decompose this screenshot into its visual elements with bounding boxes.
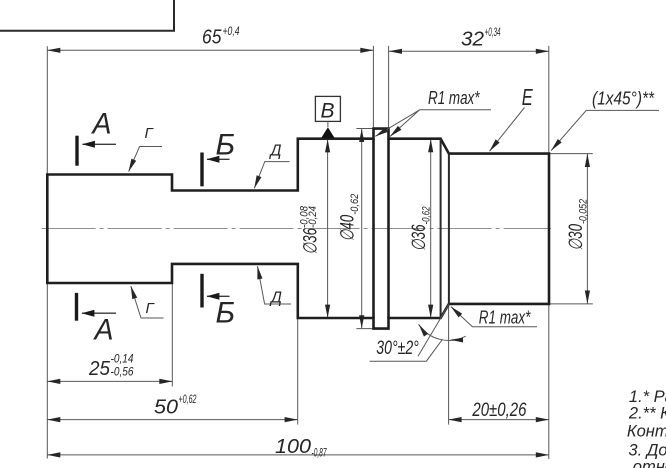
svg-text:20±0,26: 20±0,26 xyxy=(472,400,527,421)
svg-text:30°±2°: 30°±2° xyxy=(376,338,419,359)
leader R1 top arrow 1 xyxy=(375,110,419,137)
dim line 25 xyxy=(47,380,172,382)
svg-text:Г: Г xyxy=(145,125,155,142)
svg-text:R1 max*: R1 max* xyxy=(479,308,531,328)
extension line x=172.3 (25 dim) xyxy=(171,283,173,387)
svg-text:∅36-0,08-0,24: ∅36-0,08-0,24 xyxy=(299,205,322,254)
section mark B top arrow xyxy=(207,158,230,160)
edge line cone base d36 xyxy=(440,139,442,318)
flange right edge full xyxy=(387,139,390,318)
chamfer extension line (30deg) xyxy=(418,304,449,356)
dim line 50 xyxy=(47,419,297,421)
leader D bottom xyxy=(258,266,291,304)
centerline (part axis) xyxy=(42,228,551,230)
extension line x=448.6 (20 dim / angle vertex) xyxy=(448,304,450,425)
svg-text:∅40-0,62: ∅40-0,62 xyxy=(338,194,361,242)
svg-text:-0,14: -0,14 xyxy=(111,353,134,365)
leader R1 top arrow 2 xyxy=(390,110,420,137)
dim line dia40 xyxy=(361,129,363,328)
svg-text:(1x45°)**: (1x45°)** xyxy=(592,89,655,109)
dim line 32 xyxy=(389,50,549,52)
leader E xyxy=(490,108,525,152)
extension line x=297.7 (50 dim) xyxy=(297,318,299,425)
svg-text:+0,4: +0,4 xyxy=(223,26,240,38)
svg-text:65: 65 xyxy=(202,26,222,48)
flange left edge full xyxy=(372,139,375,318)
svg-text:А: А xyxy=(91,108,112,141)
dim line dia30 xyxy=(586,154,588,304)
extension line left x=47.3 top xyxy=(46,46,48,174)
dim line dia36 left xyxy=(327,139,329,317)
datum V stem xyxy=(327,121,329,127)
svg-text:Б: Б xyxy=(216,297,236,330)
frame box (top-left corner of drawing border) xyxy=(0,0,174,31)
svg-text:+0,34: +0,34 xyxy=(485,27,501,39)
section mark A bottom bar xyxy=(75,293,78,321)
svg-text:Контрол: Контрол xyxy=(627,423,666,441)
svg-text:относит: относит xyxy=(633,458,666,468)
svg-text:100: 100 xyxy=(275,436,311,458)
section mark B top bar xyxy=(200,153,203,187)
svg-text:Г: Г xyxy=(146,300,156,317)
edge line cone base d30 xyxy=(448,154,450,304)
svg-text:2.** Конт: 2.** Конт xyxy=(628,405,666,423)
extension line flange left x=373.4 xyxy=(372,46,374,129)
leader G bottom xyxy=(131,286,164,318)
svg-text:-0,56: -0,56 xyxy=(111,366,135,378)
datum V triangle xyxy=(321,127,334,138)
arc arrow left xyxy=(419,324,428,336)
section mark A top bar xyxy=(75,136,78,166)
section mark A bottom arrow xyxy=(82,312,116,314)
extension line flange right x=388.6 xyxy=(388,46,390,129)
leader R1 bottom xyxy=(451,307,537,327)
svg-text:32: 32 xyxy=(461,28,484,50)
leader D top xyxy=(254,162,289,189)
svg-text:Д: Д xyxy=(269,143,282,160)
dim line dia36 right xyxy=(430,139,432,317)
section mark B bottom arrow xyxy=(207,295,230,297)
extension tick d30 top xyxy=(549,153,593,155)
datum V box xyxy=(315,96,340,121)
extension tick d40 bottom xyxy=(356,328,373,330)
svg-text:3. Допус: 3. Допус xyxy=(628,441,666,459)
extension line left x=47.3 bottom xyxy=(46,283,48,459)
extension line right end x=548.8 bottom xyxy=(548,304,550,459)
svg-text:1.* Разм: 1.* Разм xyxy=(629,388,666,406)
leader 30deg shelf xyxy=(370,339,443,361)
leader R1 top shelf xyxy=(420,109,491,111)
section mark B bottom bar xyxy=(200,274,203,308)
svg-text:А: А xyxy=(93,314,114,347)
angle arc 30deg xyxy=(419,324,466,340)
leader 1x45 xyxy=(551,110,659,150)
svg-text:R1 max*: R1 max* xyxy=(428,88,480,108)
svg-text:50: 50 xyxy=(154,397,178,419)
extension tick d40 top xyxy=(356,128,373,130)
extension tick d30 bottom xyxy=(549,303,593,305)
svg-text:Е: Е xyxy=(522,84,533,110)
extension line right end x=548.8 top xyxy=(548,46,550,154)
svg-text:∅36-0,62: ∅36-0,62 xyxy=(409,207,432,252)
svg-text:Д: Д xyxy=(269,290,282,307)
dim line 65 xyxy=(47,49,373,51)
part outline (stepped shaft profile) xyxy=(47,129,549,329)
section mark A top arrow xyxy=(83,143,117,145)
dim line 100 xyxy=(47,454,549,456)
svg-text:-0,87: -0,87 xyxy=(312,448,327,460)
svg-text:25: 25 xyxy=(88,358,111,380)
arc arrow right xyxy=(450,338,463,343)
svg-text:Б: Б xyxy=(216,129,236,162)
leader G top xyxy=(129,147,162,172)
svg-text:∅30-0,052: ∅30-0,052 xyxy=(566,199,589,251)
dim line 20 xyxy=(449,419,549,421)
svg-text:+0,62: +0,62 xyxy=(179,394,197,406)
svg-text:В: В xyxy=(321,100,335,123)
